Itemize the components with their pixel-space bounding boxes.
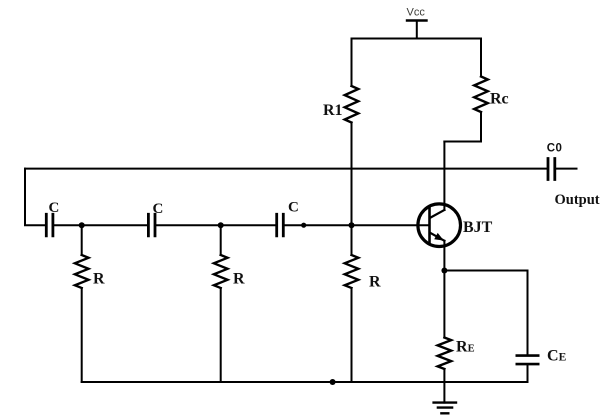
resistor R (second) (214, 255, 228, 288)
wire Rc bottom (444, 112, 481, 142)
node junction dot 1 (79, 222, 85, 228)
wire C3 to base (285, 224, 430, 226)
wire Rc top (480, 39, 482, 77)
svg-text:R: R (93, 271, 105, 288)
resistor Rc (474, 77, 488, 113)
wire RE top (443, 271, 445, 338)
wire C0 output stub (556, 168, 576, 170)
wire R third bottom (351, 288, 353, 382)
svg-text:C: C (288, 200, 299, 216)
transistor base bar (428, 208, 431, 242)
Vcc supply bar symbol (407, 19, 427, 21)
svg-text:C0: C0 (547, 143, 563, 155)
ground symbol (434, 403, 456, 414)
svg-text:C: C (49, 200, 60, 216)
wire ground stem (443, 382, 445, 403)
wire Vcc stem (416, 21, 418, 39)
svg-text:RE: RE (456, 339, 475, 356)
wire R1 top (351, 39, 353, 87)
wire RE bottom (443, 369, 445, 382)
wire C2 to C3 (156, 224, 275, 226)
wire collector (443, 142, 445, 211)
node junction dot 2 (218, 222, 224, 228)
wire R second bottom (220, 288, 222, 382)
wire R1 bottom to base node (351, 123, 353, 256)
node junction dot on bottom rail (330, 379, 336, 385)
wire C1 to C2 (54, 224, 147, 226)
capacitor C1 (46, 214, 53, 236)
capacitor C0 (548, 159, 555, 180)
node junction dot after C3 (301, 223, 306, 228)
resistor R (first) (75, 255, 89, 288)
svg-text:CE: CE (547, 348, 567, 365)
capacitor C2 (148, 214, 155, 236)
wire top rail (352, 38, 482, 40)
wire emitter (443, 241, 445, 271)
wire bottom rail (82, 381, 528, 383)
resistor R (third) (345, 255, 359, 288)
svg-text:Rc: Rc (490, 91, 509, 108)
svg-text:BJT: BJT (463, 219, 493, 236)
resistor RE (438, 338, 452, 370)
transistor emitter arrowhead (434, 233, 444, 241)
transistor collector diagonal (430, 210, 444, 218)
node junction dot base/bias (349, 222, 355, 228)
capacitor C3 (277, 214, 284, 236)
node emitter junction dot (441, 268, 447, 274)
wire CE bottom (527, 365, 529, 382)
wire output line (25, 168, 547, 170)
transistor Q1 circle (418, 204, 461, 247)
wire feedback left side (25, 169, 45, 226)
wire emitter to CE (444, 271, 527, 355)
svg-text:R: R (369, 274, 381, 291)
svg-text:R: R (233, 271, 245, 288)
wire R first top (81, 225, 83, 255)
svg-text:Output: Output (555, 192, 600, 208)
resistor R1 (345, 86, 359, 123)
wire R first bottom (81, 288, 83, 382)
capacitor CE (517, 356, 538, 365)
transistor emitter diagonal (430, 233, 444, 241)
svg-text:C: C (153, 201, 164, 217)
wire R second top (220, 225, 222, 255)
svg-text:R1: R1 (323, 102, 343, 119)
svg-text:Vcc: Vcc (407, 7, 426, 19)
